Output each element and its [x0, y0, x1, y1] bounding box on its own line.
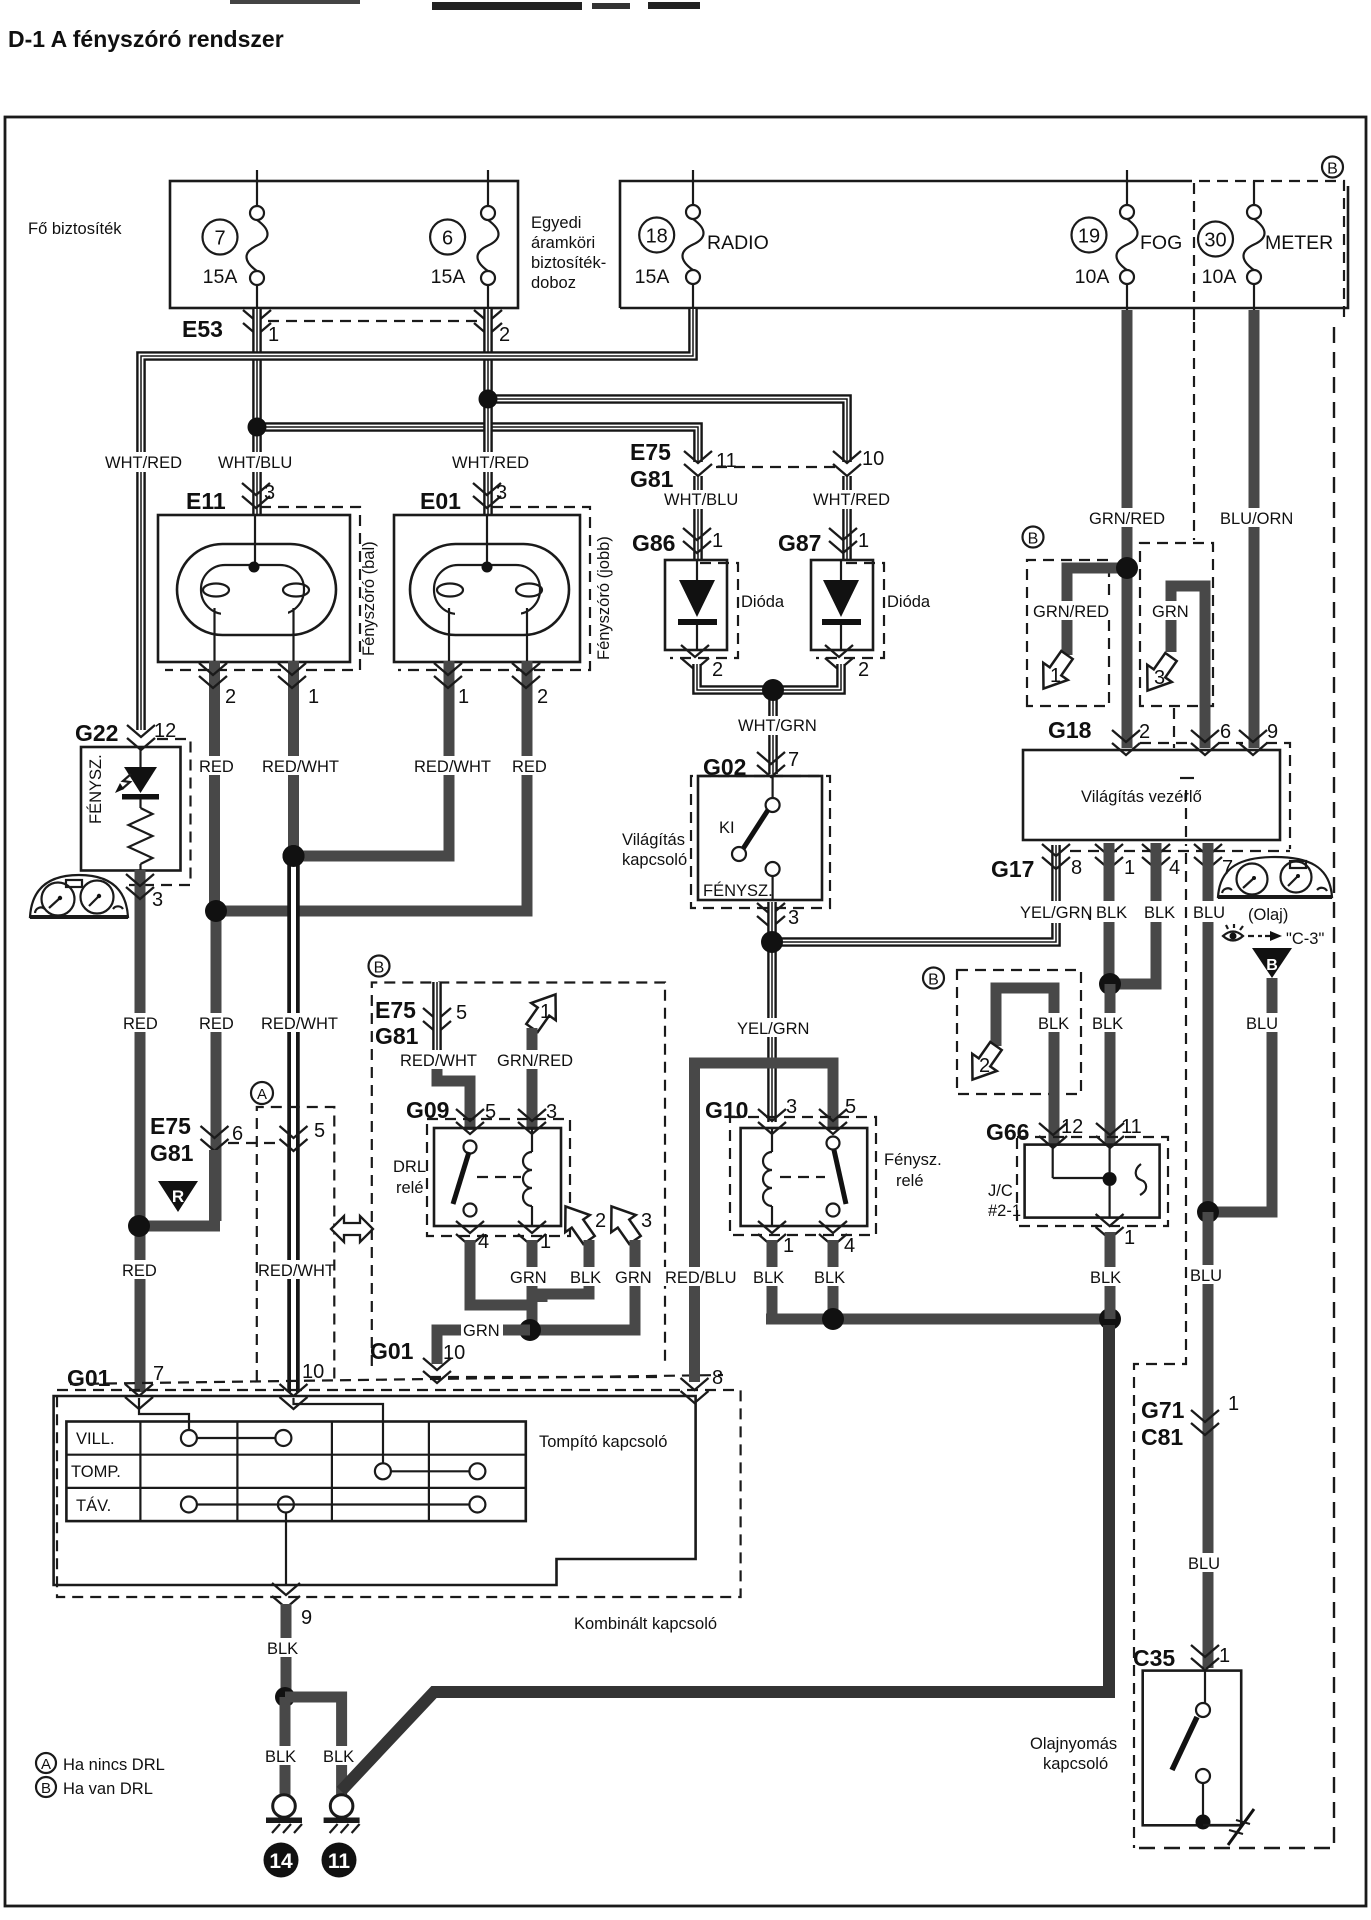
svg-text:#2-1: #2-1: [988, 1202, 1021, 1220]
svg-text:RED/WHT: RED/WHT: [262, 758, 339, 776]
svg-text:G17: G17: [991, 856, 1034, 882]
svg-text:G18: G18: [1048, 717, 1092, 743]
svg-text:G01: G01: [370, 1338, 414, 1364]
svg-text:KI: KI: [719, 819, 735, 837]
svg-text:"C-3": "C-3": [1286, 930, 1324, 948]
svg-text:1: 1: [1124, 1227, 1135, 1249]
svg-text:1: 1: [1050, 665, 1061, 687]
svg-text:3: 3: [788, 907, 799, 929]
svg-text:1: 1: [712, 530, 723, 552]
svg-text:E75: E75: [630, 439, 671, 465]
svg-text:WHT/GRN: WHT/GRN: [738, 717, 817, 735]
svg-text:Dióda: Dióda: [741, 593, 785, 611]
svg-text:BLK: BLK: [1092, 1015, 1123, 1033]
svg-text:2: 2: [225, 686, 236, 708]
svg-text:Dióda: Dióda: [887, 593, 931, 611]
svg-text:relé: relé: [396, 1179, 424, 1197]
svg-text:1: 1: [1124, 857, 1135, 879]
svg-text:Olajnyomás: Olajnyomás: [1030, 1735, 1117, 1753]
svg-text:RED/WHT: RED/WHT: [400, 1052, 477, 1070]
svg-text:G22: G22: [75, 720, 118, 746]
svg-text:BLU: BLU: [1246, 1015, 1278, 1033]
svg-text:3: 3: [496, 482, 507, 504]
svg-text:BLK: BLK: [1090, 1269, 1121, 1287]
svg-text:B: B: [1266, 957, 1278, 974]
svg-text:BLK: BLK: [267, 1640, 298, 1658]
svg-text:A: A: [41, 1756, 51, 1773]
svg-text:biztosíték-: biztosíték-: [531, 254, 606, 272]
svg-text:kapcsoló: kapcsoló: [1043, 1755, 1108, 1773]
svg-text:E01: E01: [420, 488, 461, 514]
svg-text:Tompító kapcsoló: Tompító kapcsoló: [539, 1433, 667, 1451]
svg-text:FOG: FOG: [1140, 232, 1182, 254]
svg-text:DRL: DRL: [393, 1158, 426, 1176]
svg-text:BLK: BLK: [753, 1269, 784, 1287]
svg-text:6: 6: [1220, 721, 1231, 743]
svg-text:1: 1: [783, 1235, 794, 1257]
svg-text:D-1 A fényszóró rendszer: D-1 A fényszóró rendszer: [8, 26, 284, 52]
svg-text:8: 8: [1071, 857, 1082, 879]
svg-text:BLU/ORN: BLU/ORN: [1220, 510, 1293, 528]
svg-text:BLK: BLK: [814, 1269, 845, 1287]
svg-text:7: 7: [788, 749, 799, 771]
svg-text:J/C: J/C: [988, 1182, 1013, 1200]
svg-text:11: 11: [716, 450, 737, 472]
svg-text:GRN/RED: GRN/RED: [497, 1052, 573, 1070]
svg-text:BLK: BLK: [323, 1748, 354, 1766]
svg-text:B: B: [374, 960, 385, 977]
svg-text:BLU: BLU: [1188, 1555, 1220, 1573]
svg-text:4: 4: [1169, 857, 1180, 879]
svg-text:19: 19: [1078, 226, 1100, 248]
svg-text:WHT/RED: WHT/RED: [105, 454, 182, 472]
svg-text:11: 11: [328, 1850, 351, 1873]
svg-text:RED/WHT: RED/WHT: [414, 758, 491, 776]
svg-text:1: 1: [308, 686, 319, 708]
svg-text:E75: E75: [150, 1113, 191, 1139]
svg-text:GRN: GRN: [615, 1269, 652, 1287]
svg-text:RED: RED: [199, 758, 234, 776]
svg-text:VILL.: VILL.: [76, 1430, 115, 1448]
svg-text:C81: C81: [1141, 1424, 1183, 1450]
svg-text:GRN/RED: GRN/RED: [1089, 510, 1165, 528]
svg-text:G71: G71: [1141, 1397, 1185, 1423]
svg-text:R: R: [172, 1187, 184, 1206]
svg-text:10A: 10A: [1075, 266, 1110, 288]
svg-text:G87: G87: [778, 530, 821, 556]
svg-text:B: B: [41, 1780, 51, 1797]
svg-text:G81: G81: [630, 466, 674, 492]
svg-text:BLK: BLK: [265, 1748, 296, 1766]
svg-text:TÁV.: TÁV.: [76, 1496, 111, 1515]
svg-text:2: 2: [595, 1210, 606, 1232]
svg-text:B: B: [928, 972, 939, 989]
svg-text:11: 11: [1121, 1116, 1142, 1138]
svg-text:WHT/RED: WHT/RED: [813, 491, 890, 509]
svg-text:3: 3: [1154, 667, 1165, 689]
svg-text:2: 2: [979, 1055, 990, 1077]
svg-text:1: 1: [540, 1001, 551, 1023]
svg-text:áramköri: áramköri: [531, 234, 595, 252]
svg-text:G66: G66: [986, 1119, 1029, 1145]
svg-text:6: 6: [442, 228, 453, 250]
svg-text:RED: RED: [199, 1015, 234, 1033]
svg-text:Fényszóró (bal): Fényszóró (bal): [360, 541, 378, 656]
svg-text:GRN: GRN: [510, 1269, 547, 1287]
svg-text:A: A: [257, 1086, 267, 1103]
svg-text:15A: 15A: [431, 266, 466, 288]
svg-text:doboz: doboz: [531, 274, 576, 292]
svg-text:1: 1: [1228, 1393, 1239, 1415]
svg-text:relé: relé: [896, 1172, 924, 1190]
svg-text:FÉNYSZ.: FÉNYSZ.: [86, 754, 105, 824]
svg-text:RED: RED: [123, 1015, 158, 1033]
svg-text:5: 5: [456, 1002, 467, 1024]
svg-text:B: B: [1327, 161, 1338, 178]
svg-text:2: 2: [858, 659, 869, 681]
svg-text:7: 7: [214, 228, 225, 250]
svg-text:GRN/RED: GRN/RED: [1033, 603, 1109, 621]
svg-text:9: 9: [1267, 721, 1278, 743]
svg-text:G01: G01: [67, 1365, 111, 1391]
svg-text:RED/WHT: RED/WHT: [261, 1015, 338, 1033]
svg-text:GRN: GRN: [463, 1322, 500, 1340]
svg-text:3: 3: [264, 482, 275, 504]
svg-text:4: 4: [478, 1231, 489, 1253]
svg-text:E11: E11: [186, 488, 226, 514]
svg-text:G86: G86: [632, 530, 675, 556]
svg-text:30: 30: [1204, 230, 1226, 252]
svg-text:BLK: BLK: [1144, 904, 1175, 922]
svg-text:WHT/BLU: WHT/BLU: [218, 454, 292, 472]
svg-text:2: 2: [712, 659, 723, 681]
svg-text:YEL/GRN: YEL/GRN: [1020, 904, 1092, 922]
svg-text:1: 1: [540, 1231, 551, 1253]
svg-text:Fényszóró (jobb): Fényszóró (jobb): [595, 536, 613, 660]
svg-text:10A: 10A: [1202, 266, 1237, 288]
svg-text:2: 2: [499, 324, 510, 346]
svg-text:YEL/GRN: YEL/GRN: [737, 1020, 809, 1038]
svg-text:6: 6: [232, 1123, 243, 1145]
svg-text:kapcsoló: kapcsoló: [622, 851, 687, 869]
svg-text:1: 1: [458, 686, 469, 708]
svg-text:Világítás vezérlő: Világítás vezérlő: [1081, 788, 1202, 806]
svg-text:8: 8: [712, 1367, 723, 1389]
svg-text:1: 1: [1219, 1645, 1230, 1667]
svg-text:10: 10: [443, 1342, 465, 1364]
svg-text:14: 14: [269, 1850, 293, 1873]
svg-text:9: 9: [301, 1607, 312, 1629]
svg-text:BLK: BLK: [1096, 904, 1127, 922]
svg-text:(Olaj): (Olaj): [1248, 906, 1288, 924]
svg-text:Fénysz.: Fénysz.: [884, 1151, 942, 1169]
svg-text:10: 10: [862, 448, 884, 470]
svg-text:15A: 15A: [203, 266, 238, 288]
svg-text:18: 18: [646, 226, 668, 248]
svg-text:G81: G81: [150, 1140, 194, 1166]
svg-text:Fő biztosíték: Fő biztosíték: [28, 220, 122, 238]
svg-text:RED/WHT: RED/WHT: [258, 1262, 335, 1280]
svg-text:BLK: BLK: [1038, 1015, 1069, 1033]
svg-text:2: 2: [537, 686, 548, 708]
svg-text:G81: G81: [375, 1023, 419, 1049]
svg-text:1: 1: [858, 530, 869, 552]
svg-text:RADIO: RADIO: [707, 232, 769, 254]
svg-text:METER: METER: [1265, 232, 1333, 254]
svg-text:Világítás: Világítás: [622, 831, 685, 849]
svg-text:WHT/BLU: WHT/BLU: [664, 491, 738, 509]
svg-text:BLK: BLK: [570, 1269, 601, 1287]
svg-text:3: 3: [152, 889, 163, 911]
svg-text:E53: E53: [182, 316, 223, 342]
svg-text:4: 4: [844, 1235, 855, 1257]
svg-text:BLU: BLU: [1190, 1267, 1222, 1285]
svg-text:RED: RED: [512, 758, 547, 776]
svg-text:12: 12: [1061, 1116, 1083, 1138]
svg-text:3: 3: [786, 1096, 797, 1118]
svg-text:C35: C35: [1133, 1645, 1175, 1671]
svg-text:GRN: GRN: [1152, 603, 1189, 621]
svg-text:RED: RED: [122, 1262, 157, 1280]
svg-text:Kombinált kapcsoló: Kombinált kapcsoló: [574, 1615, 717, 1633]
svg-text:Ha van DRL: Ha van DRL: [63, 1780, 153, 1798]
svg-text:G10: G10: [705, 1097, 748, 1123]
svg-text:3: 3: [641, 1210, 652, 1232]
svg-text:E75: E75: [375, 997, 416, 1023]
svg-text:Ha nincs DRL: Ha nincs DRL: [63, 1756, 165, 1774]
svg-text:15A: 15A: [635, 266, 670, 288]
svg-text:5: 5: [845, 1096, 856, 1118]
svg-text:FÉNYSZ.: FÉNYSZ.: [703, 881, 773, 900]
svg-text:1: 1: [268, 324, 279, 346]
svg-text:TOMP.: TOMP.: [71, 1463, 121, 1481]
svg-text:WHT/RED: WHT/RED: [452, 454, 529, 472]
svg-text:2: 2: [1139, 721, 1150, 743]
svg-text:BLU: BLU: [1193, 904, 1225, 922]
svg-text:Egyedi: Egyedi: [531, 214, 581, 232]
svg-text:RED/BLU: RED/BLU: [665, 1269, 737, 1287]
svg-text:5: 5: [314, 1120, 325, 1142]
svg-text:B: B: [1028, 531, 1039, 548]
